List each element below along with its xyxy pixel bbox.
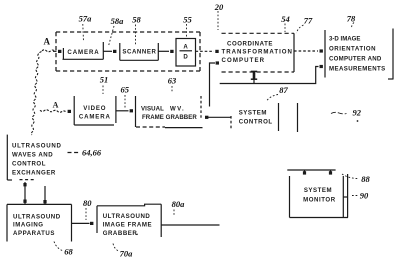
svg-text:SYSTEM: SYSTEM — [304, 187, 332, 194]
svg-text:VIDEO: VIDEO — [83, 105, 106, 112]
svg-text:3-D IMAGE: 3-D IMAGE — [329, 36, 361, 43]
svg-text:57a: 57a — [79, 14, 93, 24]
svg-text:MONITOR: MONITOR — [303, 196, 336, 203]
svg-text:COMPUTER AND: COMPUTER AND — [329, 56, 382, 63]
svg-text:90: 90 — [360, 191, 369, 201]
svg-text:A: A — [183, 44, 188, 51]
svg-text:ULTRASOUND: ULTRASOUND — [103, 213, 151, 220]
svg-text:MEASUREMENTS: MEASUREMENTS — [329, 65, 386, 72]
svg-text:APPARATUS: APPARATUS — [13, 230, 55, 237]
svg-text:78: 78 — [347, 14, 356, 24]
svg-text:92: 92 — [353, 108, 362, 118]
svg-text:EXCHANGER: EXCHANGER — [12, 169, 56, 176]
svg-text:55: 55 — [183, 15, 192, 25]
svg-text:68: 68 — [64, 247, 73, 257]
svg-text:ULTRASOUND: ULTRASOUND — [12, 142, 62, 149]
svg-text:65: 65 — [121, 85, 130, 95]
svg-text:IMAGING: IMAGING — [13, 222, 44, 229]
svg-text:WAVES AND: WAVES AND — [12, 151, 53, 158]
svg-text:D: D — [183, 54, 188, 61]
svg-text:ORIENTATION: ORIENTATION — [329, 46, 376, 53]
svg-text:IMAGE FRAME: IMAGE FRAME — [103, 222, 152, 229]
svg-text:COORDINATE: COORDINATE — [227, 40, 273, 47]
svg-text:63: 63 — [168, 76, 177, 86]
svg-text:70a: 70a — [120, 249, 134, 259]
svg-text:ULTRASOUND: ULTRASOUND — [13, 214, 61, 221]
svg-text:SCANNER: SCANNER — [122, 49, 156, 56]
svg-text:SYSTEM: SYSTEM — [239, 110, 267, 117]
svg-text:CONTROL: CONTROL — [12, 160, 46, 167]
svg-text:51: 51 — [100, 75, 109, 85]
svg-text:A: A — [44, 36, 51, 46]
svg-text:80: 80 — [83, 198, 92, 208]
svg-text:64,66: 64,66 — [82, 148, 102, 158]
svg-text:58: 58 — [132, 15, 141, 25]
svg-text:20: 20 — [214, 2, 224, 12]
svg-text:87: 87 — [279, 85, 288, 95]
svg-text:VISUALWV.: VISUALWV. — [141, 106, 185, 113]
svg-text:CONTROL: CONTROL — [239, 118, 273, 125]
svg-text:GRABBER: GRABBER — [103, 230, 138, 237]
svg-text:CAMERA: CAMERA — [67, 49, 99, 56]
svg-text:77: 77 — [304, 16, 313, 26]
svg-text:TRANSFORMATION: TRANSFORMATION — [222, 49, 293, 56]
svg-text:CAMERA: CAMERA — [79, 114, 111, 121]
svg-text:FRAME GRABBER: FRAME GRABBER — [142, 114, 197, 121]
svg-text:54: 54 — [281, 14, 290, 24]
svg-text:COMPUTER: COMPUTER — [222, 57, 266, 64]
svg-text:58a: 58a — [111, 16, 125, 26]
svg-text:88: 88 — [361, 174, 370, 184]
svg-text:A: A — [53, 101, 59, 110]
svg-text:80a: 80a — [172, 199, 186, 209]
